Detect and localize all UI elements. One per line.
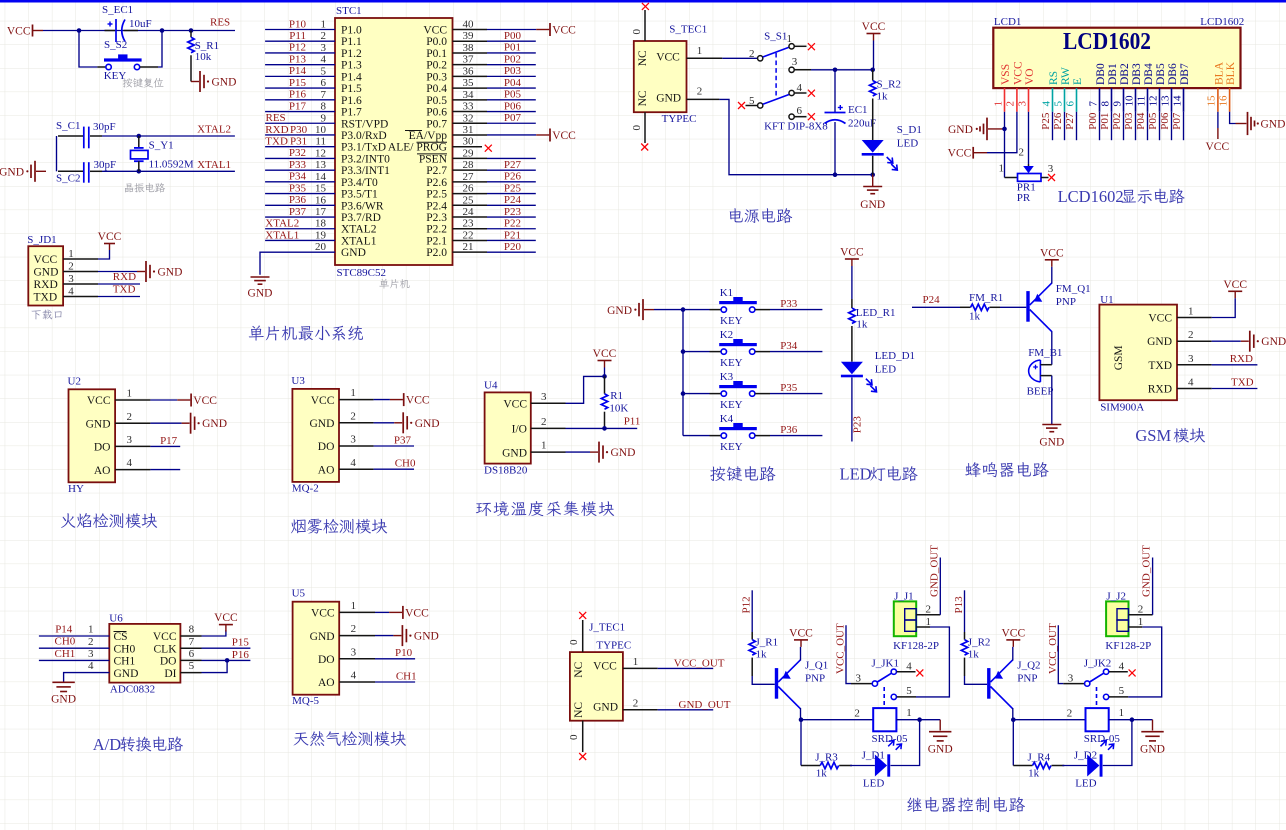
svg-text:LED: LED (840, 465, 872, 484)
pin name P0.4 (426, 83, 447, 95)
contact 5 lead (1109, 696, 1128, 698)
svg-text:3: 3 (127, 434, 133, 446)
pin number 40 (463, 19, 475, 31)
svg-text:0: 0 (568, 734, 580, 740)
contact 3 lead (794, 69, 811, 71)
transistor J_Q2 (987, 660, 1013, 709)
svg-text:35: 35 (463, 77, 475, 89)
pin number 6 (rotated) (1064, 101, 1076, 107)
pin 6 stub (1076, 88, 1078, 112)
contact 5 lead (897, 696, 916, 698)
wire (1111, 112, 1113, 140)
label VCC_OUT net (rotated) (835, 623, 847, 674)
pin name DB6 (rotated) (1167, 63, 1179, 85)
svg-text:10uF: 10uF (129, 18, 152, 30)
label P34 net (780, 340, 798, 352)
svg-text:U6: U6 (109, 613, 123, 625)
potentiometer PR1 body (1018, 174, 1042, 182)
designator U1 (1100, 294, 1113, 306)
label P01 net (504, 42, 521, 54)
resistor J_R4 (1013, 762, 1064, 768)
pin 36 lead (453, 75, 488, 77)
pin number 38 (463, 42, 475, 54)
svg-text:1: 1 (68, 248, 74, 260)
relay coil SRD-05 (873, 708, 896, 731)
svg-text:J_R1: J_R1 (756, 636, 779, 648)
wire (64, 673, 110, 682)
capacitor S_EC1 (105, 19, 139, 42)
wire (850, 765, 875, 767)
pin 5 lead (180, 672, 201, 674)
label P33 net (780, 298, 798, 310)
pin number 2 (697, 86, 703, 98)
svg-text:GND: GND (1039, 436, 1064, 448)
label P33 net (289, 159, 307, 171)
pin 3 wire (265, 52, 335, 54)
designator U3 (291, 375, 305, 387)
label S_C1 (56, 120, 80, 132)
pin 2 lead (339, 422, 374, 424)
svg-text:CH0: CH0 (395, 458, 416, 470)
svg-text:VCC: VCC (98, 231, 122, 243)
svg-text:U1: U1 (1100, 294, 1113, 306)
svg-text:220uF: 220uF (848, 118, 876, 130)
svg-text:P0.2: P0.2 (426, 60, 447, 72)
svg-text:30pF: 30pF (93, 121, 116, 133)
svg-text:2: 2 (697, 86, 703, 98)
no-ERC X (916, 669, 923, 676)
pin 1 lead (339, 399, 374, 401)
svg-text:P33: P33 (780, 298, 798, 310)
pin number 31 (463, 124, 474, 136)
pin number 15 (315, 183, 327, 195)
svg-text:1k: 1k (756, 649, 768, 661)
svg-text:1k: 1k (856, 319, 868, 331)
svg-text:VCC: VCC (862, 21, 886, 33)
svg-text:1: 1 (350, 387, 356, 399)
pin 2 lead (531, 427, 566, 429)
label LED_R1 (856, 307, 896, 319)
pin lead (755, 351, 770, 353)
label P02 net (504, 53, 521, 65)
wire (487, 228, 536, 230)
label P05 net (rotated) (1147, 112, 1159, 130)
svg-text:5: 5 (189, 660, 195, 672)
pin name EA/Vpp (405, 130, 447, 142)
wire (872, 101, 874, 140)
pin name CLK (154, 643, 178, 655)
wire P23 (851, 378, 853, 442)
label LED_D1 (875, 350, 915, 362)
part MQ-2 (292, 482, 319, 494)
label P27 net (504, 159, 522, 171)
svg-text:VCC: VCC (1040, 247, 1064, 259)
pin name VCC (593, 661, 617, 673)
svg-text:RES: RES (266, 112, 286, 124)
wire P12 (751, 590, 753, 632)
wire TXD (98, 296, 140, 298)
svg-text:P3.3/INT1: P3.3/INT1 (341, 165, 390, 177)
label P06 net (504, 100, 522, 112)
pin name P2.7 (426, 165, 447, 177)
svg-text:1k: 1k (969, 310, 981, 322)
svg-text:SIM900A: SIM900A (1100, 402, 1144, 414)
switch contact 5 (1103, 694, 1108, 699)
pin name P2.2 (426, 224, 447, 236)
wire (1128, 627, 1161, 697)
svg-text:21: 21 (463, 241, 474, 253)
wire (1099, 112, 1101, 140)
svg-text:25: 25 (463, 194, 475, 206)
label P06 net (rotated) (1159, 112, 1171, 130)
pin number 1 (633, 656, 639, 668)
pin name P1.7 (341, 107, 362, 119)
value 10uF (129, 18, 152, 30)
svg-text:XTAL2: XTAL2 (197, 124, 231, 136)
svg-text:1: 1 (697, 45, 703, 57)
svg-text:KEY: KEY (720, 399, 743, 411)
label P35 net (780, 382, 798, 394)
svg-text:KF128-2P: KF128-2P (893, 640, 939, 652)
svg-text:DO: DO (318, 441, 335, 453)
svg-text:4: 4 (797, 82, 803, 94)
svg-text:P32: P32 (289, 147, 306, 159)
power port VCC (1223, 279, 1247, 298)
label J_JK2 (1084, 658, 1112, 670)
pin number 6 (321, 77, 327, 89)
pin number 1 (88, 624, 94, 636)
svg-text:34: 34 (463, 89, 475, 101)
label P16 net (289, 89, 307, 101)
LED J_D1 (875, 754, 890, 776)
svg-text:ADC0832: ADC0832 (110, 684, 155, 696)
label TXD P31 (265, 136, 307, 148)
label SRD-05 (872, 733, 909, 745)
pin number 3 (541, 391, 547, 403)
svg-text:2: 2 (633, 697, 639, 709)
svg-text:2: 2 (926, 604, 932, 616)
svg-text:P04: P04 (1135, 112, 1147, 130)
svg-text:4: 4 (68, 286, 74, 298)
pin name RST/VPD (341, 118, 388, 130)
svg-text:GND: GND (1140, 743, 1165, 755)
label J_JK1 (872, 658, 900, 670)
svg-text:2: 2 (541, 416, 547, 428)
pin name P3.6/WR (341, 200, 384, 212)
value LED (1075, 777, 1096, 789)
power port VCC (862, 21, 886, 40)
svg-text:P1.6: P1.6 (341, 95, 362, 107)
pin name DO (160, 656, 177, 668)
svg-text:P35: P35 (780, 382, 798, 394)
pin 4 wire (265, 64, 335, 66)
pin 2 lead (687, 98, 720, 100)
svg-text:J_D1: J_D1 (862, 750, 885, 762)
wire (487, 169, 536, 171)
svg-text:MQ-5: MQ-5 (292, 695, 319, 707)
svg-text:4: 4 (1119, 660, 1125, 672)
svg-text:P2.4: P2.4 (426, 200, 447, 212)
pole 5 lead (746, 105, 758, 107)
svg-text:P12: P12 (741, 596, 753, 613)
pin number 1 (rotated) (992, 101, 1004, 107)
svg-text:KFT DIP-8X8: KFT DIP-8X8 (764, 121, 828, 133)
pin name DB2 (rotated) (1119, 63, 1131, 85)
wire (1005, 177, 1018, 179)
wire (150, 469, 180, 471)
svg-text:TXD: TXD (1231, 377, 1254, 389)
svg-text:P03: P03 (1123, 112, 1135, 130)
svg-text:7: 7 (321, 89, 327, 101)
label GND_OUT net (rotated) (1141, 545, 1153, 597)
pin 2 lead (339, 635, 375, 637)
resistor J_R2 (961, 632, 967, 676)
svg-text:J_R4: J_R4 (1028, 751, 1051, 763)
pin number 7 (rotated) (1087, 101, 1099, 107)
pin number 1 (1119, 707, 1125, 719)
pin name VCC (34, 254, 58, 266)
pin 1 wire (265, 29, 335, 31)
LED J_D2 (1087, 754, 1102, 776)
title 单片机最小系统 (249, 325, 363, 340)
wire RES net horizontal (43, 30, 235, 32)
pin number 20 (315, 241, 327, 253)
label P24 net (504, 194, 522, 206)
pin name E (rotated) (1072, 78, 1084, 85)
pin number 25 (463, 194, 475, 206)
svg-text:1k: 1k (877, 91, 889, 103)
svg-text:S_R2: S_R2 (877, 79, 901, 91)
svg-text:P31: P31 (290, 136, 307, 148)
wire (150, 399, 177, 401)
svg-text:4: 4 (1188, 377, 1194, 389)
wire GND_OUT (658, 709, 714, 711)
crystal S_Y1 (131, 136, 149, 171)
wire (487, 204, 536, 206)
label K1 (720, 287, 733, 299)
svg-text:S_Y1: S_Y1 (149, 140, 174, 152)
resistor S_R1 (188, 31, 194, 63)
pin name VSS (rotated) (1000, 64, 1012, 85)
ground (backlight) (1236, 112, 1286, 135)
label P32 net (289, 147, 306, 159)
svg-text:GND: GND (86, 418, 111, 430)
svg-text:6: 6 (1064, 101, 1076, 107)
title 蜂鸣器电路 (965, 462, 1048, 477)
pin 13 wire (265, 169, 335, 171)
label S_S2 (104, 39, 127, 51)
sheet top border (0, 0, 1286, 3)
switch blade (877, 673, 891, 682)
svg-text:NC: NC (573, 661, 585, 677)
svg-text:P26: P26 (504, 171, 522, 183)
pin number 6 (189, 648, 195, 660)
svg-text:GND: GND (202, 418, 227, 430)
label J_R2 (968, 636, 991, 648)
svg-text:LED: LED (875, 364, 896, 376)
svg-text:TXD: TXD (34, 292, 58, 304)
designator U6 (109, 613, 123, 625)
pin number 2 (68, 261, 74, 273)
svg-text:GND: GND (310, 631, 335, 643)
pin number 16 (rotated) (1217, 95, 1229, 107)
pin name P2.4 (426, 200, 447, 212)
junction (189, 28, 194, 33)
ground (relay) (928, 720, 953, 756)
svg-text:RXD: RXD (265, 124, 288, 136)
svg-text:J_D2: J_D2 (1074, 750, 1097, 762)
pin number 2 (1019, 147, 1025, 159)
svg-text:DO: DO (160, 656, 177, 668)
ground (137, 261, 182, 282)
pin name P2.5 (426, 189, 447, 201)
pot pin 3 lead (1041, 177, 1049, 179)
title GSM模块 (1135, 426, 1205, 445)
svg-text:LCD1602: LCD1602 (1058, 187, 1124, 206)
pin name P1.6 (341, 95, 362, 107)
pin number 16 (315, 194, 327, 206)
wire (770, 435, 822, 437)
pin 10 stub (1135, 88, 1137, 112)
junction (602, 374, 607, 379)
switch blade (1090, 673, 1104, 682)
annotation 单片机 (379, 279, 409, 289)
pin 6 lead (180, 659, 201, 661)
pin name VCC (656, 51, 680, 63)
pin 1 lead (687, 57, 723, 59)
svg-text:3: 3 (88, 648, 94, 660)
value 10K (609, 403, 628, 415)
pin 25 lead (453, 204, 488, 206)
pin 8 stub (1111, 88, 1113, 112)
pin number 2 (1067, 708, 1073, 720)
pin 1 lead (339, 611, 375, 613)
power port VCC (reset circuit) (7, 25, 43, 38)
svg-text:2: 2 (351, 623, 357, 635)
label GND_OUT net (rotated) (928, 545, 940, 597)
svg-text:22: 22 (463, 229, 474, 241)
pin number 9 (321, 112, 327, 124)
pin name AO (318, 677, 335, 689)
svg-text:LED: LED (1075, 777, 1096, 789)
label XTAL2 net (265, 218, 299, 230)
svg-text:2: 2 (321, 30, 327, 42)
svg-text:14: 14 (1171, 95, 1183, 107)
pin number 3 (351, 646, 357, 658)
pin number 3 (1048, 163, 1054, 175)
pin name BLK (rotated) (1225, 61, 1237, 85)
pin name NC (637, 50, 649, 66)
svg-text:P3.4/T0: P3.4/T0 (341, 177, 378, 189)
svg-text:30pF: 30pF (94, 159, 117, 171)
pin 7 stub (1099, 88, 1101, 112)
svg-text:GND: GND (341, 247, 366, 259)
pin 15 stub (1217, 88, 1219, 112)
wire (1212, 388, 1258, 390)
connector J_TEC1 body (570, 652, 623, 721)
pin number 2 (749, 48, 755, 60)
svg-text:GND: GND (309, 418, 334, 430)
pin name NC (573, 702, 585, 718)
svg-text:2: 2 (1138, 604, 1144, 616)
svg-text:VCC_OUT: VCC_OUT (1047, 623, 1059, 674)
part PR (1017, 192, 1031, 204)
switch contact 3 (789, 67, 794, 72)
svg-text:J_Q2: J_Q2 (1017, 660, 1040, 672)
junction (225, 658, 230, 663)
pin number 2 (541, 416, 547, 428)
label K2 (720, 329, 733, 341)
svg-text:U2: U2 (68, 375, 81, 387)
svg-text:P2.3: P2.3 (426, 212, 447, 224)
svg-text:12: 12 (315, 147, 326, 159)
svg-text:PNP: PNP (1017, 673, 1037, 685)
svg-text:4: 4 (351, 670, 357, 682)
svg-text:4: 4 (321, 54, 327, 66)
pin number 2 (854, 708, 860, 720)
svg-text:GND_OUT: GND_OUT (1141, 545, 1153, 597)
svg-text:10k: 10k (195, 51, 212, 63)
part SIM900A (1100, 402, 1144, 414)
svg-text:P1.5: P1.5 (341, 83, 362, 95)
pin number 19 (315, 229, 327, 241)
svg-text:EC1: EC1 (848, 104, 868, 116)
svg-text:29: 29 (463, 147, 475, 159)
junction (160, 28, 165, 33)
title A/D转换电路 (93, 735, 183, 754)
title 按键电路 (710, 466, 775, 481)
label PNP (805, 673, 825, 685)
svg-text:2: 2 (88, 636, 94, 648)
wire (799, 708, 804, 722)
svg-text:SRD-05: SRD-05 (872, 733, 909, 745)
resistor J_R3 (801, 762, 852, 768)
svg-text:5: 5 (906, 685, 912, 697)
switch contact 6 (789, 114, 794, 119)
svg-text:P3.2/INT0: P3.2/INT0 (341, 153, 390, 165)
pin number 6 (797, 105, 803, 117)
ground (MCU) (248, 277, 273, 300)
pin number 4 (127, 457, 133, 469)
label S_JD1 (27, 234, 56, 246)
pin 4 lead (339, 681, 375, 683)
label P14 net (55, 624, 73, 636)
svg-text:P1.2: P1.2 (341, 48, 362, 60)
pin name VCC (153, 631, 177, 643)
svg-text:P10: P10 (395, 647, 413, 659)
switch contact 5 (891, 694, 896, 699)
svg-text:P30: P30 (290, 124, 308, 136)
label S_D1 (897, 124, 922, 136)
svg-text:VCC: VCC (406, 395, 430, 407)
pin number 3 (68, 273, 74, 285)
wire (1028, 112, 1030, 164)
value LED (897, 138, 918, 150)
pin number 1 (906, 707, 912, 719)
wire XTAL1 (102, 170, 235, 172)
pin 1 lead (531, 451, 566, 453)
svg-text:1: 1 (906, 707, 912, 719)
pin 4 lead (63, 296, 98, 298)
label P24 net (923, 294, 941, 306)
pin name CH0 (114, 643, 136, 655)
pin number 9 (rotated) (1111, 101, 1123, 107)
pin number 26 (463, 183, 475, 195)
label R1 (610, 390, 623, 402)
svg-text:2: 2 (854, 708, 860, 720)
label S_S1 (764, 31, 787, 43)
svg-text:P23: P23 (852, 416, 864, 434)
